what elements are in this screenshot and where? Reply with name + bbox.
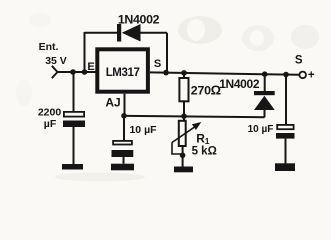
input terminal Ent. 35 V — [39, 41, 67, 78]
svg-text:1: 1 — [205, 136, 210, 146]
wire R2 to adjust rail — [183, 101, 185, 116]
svg-text:S: S — [154, 58, 161, 70]
wire input rail — [58, 71, 98, 73]
wire down to C2 — [123, 116, 125, 141]
node output/C3 junction — [283, 72, 289, 78]
svg-text:10 µF: 10 µF — [248, 124, 274, 135]
node output/D1 junction — [163, 70, 169, 76]
wire down to D2 — [264, 74, 266, 91]
wire adjust rail — [124, 116, 265, 117]
wire C2 to ground — [123, 157, 125, 164]
svg-text:+: + — [308, 70, 315, 82]
ground C2 — [111, 164, 134, 171]
svg-text:Ent.: Ent. — [39, 41, 59, 53]
node input/C1 junction — [70, 69, 76, 75]
capacitor C2 10uF — [112, 124, 158, 157]
wire AJ pin — [124, 94, 126, 116]
svg-text:S: S — [295, 55, 303, 67]
wire up to D1 loop — [84, 32, 86, 72]
node adjust/R1 junction — [181, 113, 187, 119]
wire down to R1 — [183, 116, 185, 121]
wire D2 to adjust rail — [264, 110, 266, 117]
node input/D1 junction — [82, 69, 88, 75]
capacitor C1 2200uF — [38, 107, 85, 130]
wire C1 to ground — [73, 127, 75, 164]
resistor R2 270 ohm — [179, 78, 221, 101]
wire down to R2 — [183, 73, 185, 78]
wire loop right vertical — [166, 33, 168, 73]
svg-text:LM317: LM317 — [106, 67, 140, 79]
svg-text:270: 270 — [191, 84, 211, 98]
capacitor C3 10uF — [248, 124, 295, 139]
wire R1 bottom lead — [182, 146, 184, 155]
svg-text:1N4002: 1N4002 — [118, 13, 160, 27]
svg-text:AJ: AJ — [105, 96, 120, 110]
wire output rail — [150, 72, 300, 74]
svg-text:5 kΩ: 5 kΩ — [192, 145, 217, 157]
wire C3 to ground — [285, 139, 287, 164]
diode D2 1N4002 (cathode bar top, triangle pointing up) — [219, 77, 274, 110]
output terminal S + — [295, 55, 315, 82]
svg-text:1N4002: 1N4002 — [219, 77, 260, 91]
ground C1 — [62, 164, 83, 170]
wire down to C3 — [285, 75, 287, 125]
ground C3 — [275, 163, 295, 171]
svg-text:10 µF: 10 µF — [129, 124, 157, 136]
potentiometer R1 5k — [172, 121, 217, 158]
regulator U1 LM317 — [87, 49, 161, 91]
node AJ/C2 junction — [121, 113, 127, 119]
wire R1 to ground — [182, 155, 184, 166]
wire top loop right — [141, 32, 168, 34]
node R1/ground junction — [180, 153, 186, 159]
ground R1 — [174, 167, 193, 173]
node output/D2 junction — [262, 71, 268, 77]
node output/R2 junction — [181, 70, 187, 76]
wire top loop left — [85, 32, 118, 34]
svg-text:2200: 2200 — [38, 107, 62, 119]
svg-text:µF: µF — [44, 118, 57, 130]
wire down to C1 — [73, 72, 75, 111]
svg-text:E: E — [87, 61, 94, 73]
diode D1 1N4002 (cathode bar left, triangle pointing left) — [117, 13, 160, 42]
svg-text:35 V: 35 V — [45, 55, 67, 67]
